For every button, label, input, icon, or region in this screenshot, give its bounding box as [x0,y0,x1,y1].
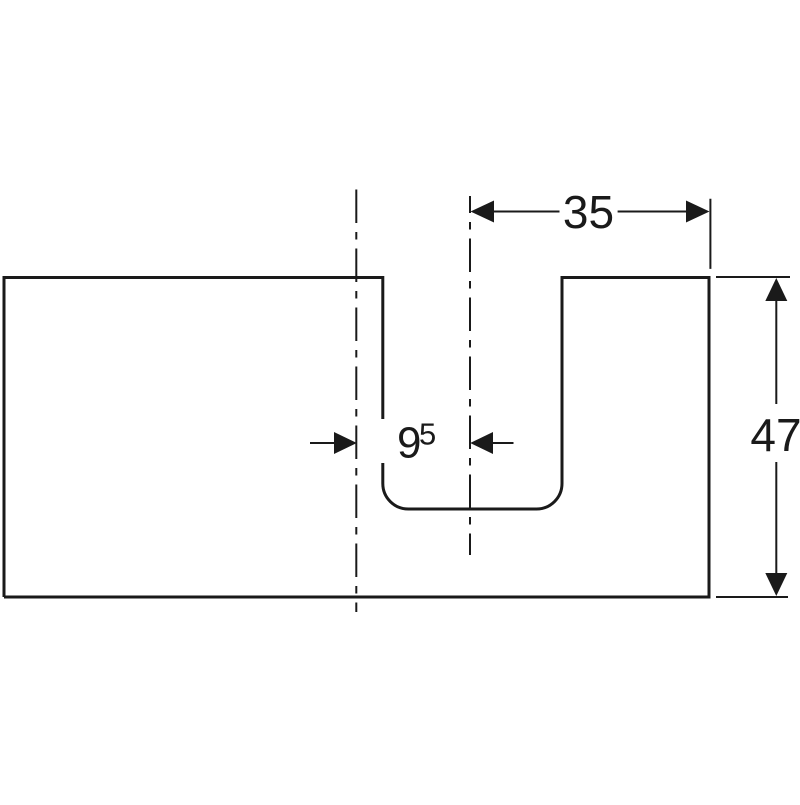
dimension 47: up arrowhead [765,278,787,301]
dimension 35: right line segment [618,211,688,213]
dimension 35: left arrowhead [471,201,495,223]
svg-text:9: 9 [397,419,421,468]
dimension 35: left line segment [492,211,560,213]
dimension 47: lower line segment [775,462,777,575]
dimension 47: bottom tick [716,596,788,598]
countertop outline right part: cutout left wall lower segment, rounded bottom, right wall, top-right edge, right edge, bottom edge [4,278,709,598]
dimension 9.5: right arrowhead [470,432,493,454]
dimension 47: top tick [716,276,790,278]
svg-text:35: 35 [563,186,614,238]
countertop outline left part: left edge, top-left edge, cutout left wall upper segment [4,278,383,598]
dimension 47: upper line segment [775,299,777,404]
svg-text:5: 5 [419,417,436,452]
dimension 9.5: left arrow tail [310,442,335,444]
centerline right (dash-dot) at x=470 cutout axis [469,196,471,555]
dimension 47: down arrowhead [765,573,787,596]
dimension 35: right extension line [709,199,711,269]
svg-text:47: 47 [750,409,800,461]
dimension 9.5: left arrowhead [334,432,357,454]
centerline left (dash-dot) at x=356 [355,190,357,613]
dimension 9.5: right arrow tail [493,442,514,444]
dimension 35: right arrowhead [686,201,710,223]
